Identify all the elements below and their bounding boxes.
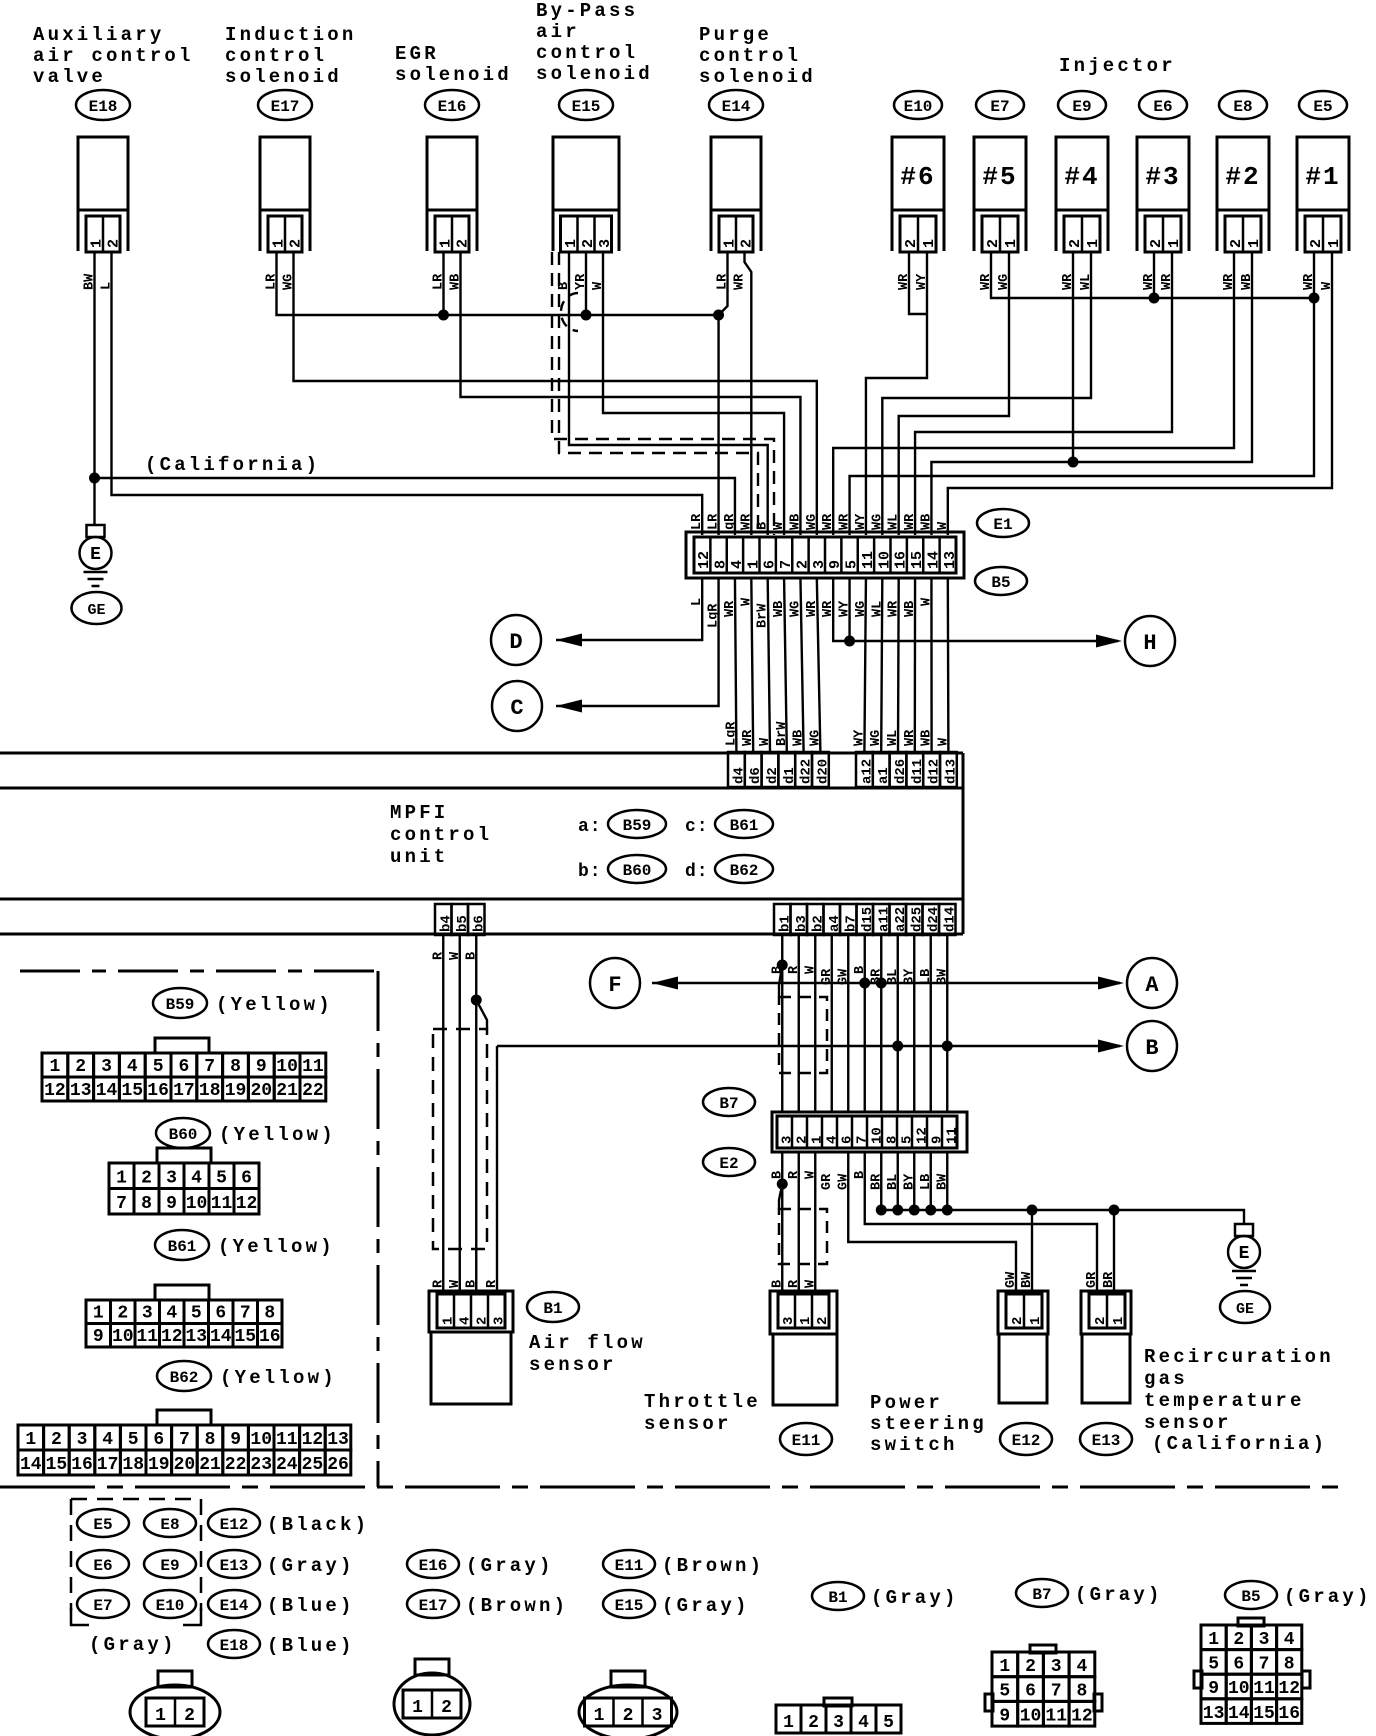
svg-text:(Gray): (Gray) <box>466 1555 554 1577</box>
svg-text:5: 5 <box>128 1430 139 1450</box>
svg-text:2: 2 <box>51 1430 62 1450</box>
svg-text:13: 13 <box>1203 1704 1225 1724</box>
svg-text:11: 11 <box>136 1327 158 1347</box>
svg-text:(Gray): (Gray) <box>662 1595 750 1617</box>
svg-text:1: 1 <box>783 1713 794 1733</box>
svg-text:11: 11 <box>302 1057 324 1077</box>
svg-text:W: W <box>758 737 773 746</box>
svg-text:2: 2 <box>623 1706 634 1726</box>
svg-text:B60: B60 <box>623 862 652 880</box>
svg-text:7: 7 <box>240 1304 251 1324</box>
svg-text:#1: #1 <box>1305 162 1340 192</box>
svg-text:valve: valve <box>33 66 106 88</box>
svg-text:18: 18 <box>199 1081 221 1101</box>
svg-text:(Gray): (Gray) <box>267 1555 355 1577</box>
svg-text:B62: B62 <box>170 1369 199 1387</box>
svg-text:B61: B61 <box>730 817 759 835</box>
svg-text:7: 7 <box>116 1194 127 1214</box>
svg-text:MPFI: MPFI <box>390 802 448 824</box>
svg-text:2: 2 <box>117 1304 128 1324</box>
svg-text:18: 18 <box>122 1455 144 1475</box>
svg-text:4: 4 <box>1284 1630 1295 1650</box>
svg-text:control: control <box>699 45 801 67</box>
svg-text:#3: #3 <box>1145 162 1180 192</box>
svg-text:E9: E9 <box>1072 98 1091 116</box>
svg-text:(Black): (Black) <box>267 1514 369 1536</box>
svg-text:8: 8 <box>264 1304 275 1324</box>
svg-text:B: B <box>1145 1036 1158 1061</box>
svg-text:Power: Power <box>870 1392 943 1414</box>
svg-text:19: 19 <box>225 1081 247 1101</box>
svg-text:5: 5 <box>191 1304 202 1324</box>
svg-text:16: 16 <box>259 1327 281 1347</box>
svg-text:1: 1 <box>798 1317 814 1325</box>
svg-text:E11: E11 <box>792 1432 821 1450</box>
svg-text:3: 3 <box>781 1317 797 1325</box>
svg-text:a:: a: <box>578 817 602 837</box>
svg-text:E: E <box>1239 1244 1250 1264</box>
svg-text:E14: E14 <box>722 98 751 116</box>
svg-text:(Yellow): (Yellow) <box>216 994 333 1016</box>
svg-text:12: 12 <box>302 1430 324 1450</box>
svg-text:2: 2 <box>75 1057 86 1077</box>
svg-text:2: 2 <box>1148 239 1165 248</box>
svg-text:F: F <box>608 973 621 998</box>
svg-text:19: 19 <box>148 1455 170 1475</box>
svg-text:1: 1 <box>999 1657 1010 1677</box>
svg-text:3: 3 <box>166 1169 177 1189</box>
svg-text:Throttle: Throttle <box>644 1391 761 1413</box>
svg-text:21: 21 <box>199 1455 221 1475</box>
svg-text:R: R <box>431 1279 446 1288</box>
svg-text:9: 9 <box>256 1057 267 1077</box>
svg-text:9: 9 <box>230 1430 241 1450</box>
svg-text:1: 1 <box>1028 1317 1044 1325</box>
svg-text:2: 2 <box>1308 239 1325 248</box>
svg-text:H: H <box>1143 631 1156 656</box>
svg-text:(California): (California) <box>145 454 320 476</box>
svg-text:B1: B1 <box>828 1589 847 1607</box>
svg-text:E6: E6 <box>93 1557 112 1575</box>
svg-text:GE: GE <box>87 602 105 619</box>
svg-text:E10: E10 <box>156 1597 185 1615</box>
svg-text:8: 8 <box>1076 1682 1087 1702</box>
svg-text:2: 2 <box>985 239 1002 248</box>
svg-text:control: control <box>390 824 492 846</box>
svg-text:3: 3 <box>1259 1630 1270 1650</box>
svg-text:By-Pass: By-Pass <box>536 0 638 22</box>
svg-text:12: 12 <box>44 1081 66 1101</box>
svg-text:1: 1 <box>1166 239 1183 248</box>
svg-text:#5: #5 <box>982 162 1017 192</box>
svg-text:1: 1 <box>594 1706 605 1726</box>
svg-text:6: 6 <box>153 1430 164 1450</box>
svg-text:WR: WR <box>903 729 918 746</box>
svg-text:#6: #6 <box>900 162 935 192</box>
svg-text:sensor: sensor <box>529 1354 617 1376</box>
svg-text:2: 2 <box>903 239 920 248</box>
svg-text:5: 5 <box>216 1169 227 1189</box>
svg-text:10: 10 <box>276 1057 298 1077</box>
svg-text:11: 11 <box>1253 1679 1275 1699</box>
svg-text:6: 6 <box>1233 1655 1244 1675</box>
svg-text:sensor: sensor <box>644 1413 732 1435</box>
svg-text:(Gray): (Gray) <box>1284 1586 1372 1608</box>
svg-text:22: 22 <box>302 1081 324 1101</box>
svg-text:13: 13 <box>327 1430 349 1450</box>
svg-text:2: 2 <box>288 239 305 248</box>
svg-text:E18: E18 <box>89 98 118 116</box>
svg-text:14: 14 <box>1228 1704 1250 1724</box>
svg-text:14: 14 <box>20 1455 42 1475</box>
svg-text:2: 2 <box>1010 1317 1026 1325</box>
svg-text:Injector: Injector <box>1059 55 1176 77</box>
svg-text:12: 12 <box>1278 1679 1300 1699</box>
svg-text:E15: E15 <box>572 98 601 116</box>
svg-text:B5: B5 <box>991 574 1010 592</box>
svg-text:W: W <box>803 1279 818 1288</box>
svg-text:4: 4 <box>858 1713 869 1733</box>
svg-text:control: control <box>225 45 327 67</box>
svg-text:7: 7 <box>1259 1655 1270 1675</box>
svg-text:E9: E9 <box>160 1557 179 1575</box>
svg-text:c:: c: <box>685 817 709 837</box>
svg-text:unit: unit <box>390 846 448 868</box>
svg-text:WY: WY <box>852 729 867 746</box>
svg-text:A: A <box>1145 973 1159 998</box>
svg-text:20: 20 <box>174 1455 196 1475</box>
svg-text:E14: E14 <box>220 1597 249 1615</box>
svg-text:(Gray): (Gray) <box>871 1587 959 1609</box>
svg-text:E16: E16 <box>419 1557 448 1575</box>
svg-text:temperature: temperature <box>1144 1390 1305 1412</box>
svg-text:switch: switch <box>870 1434 958 1456</box>
svg-text:5: 5 <box>883 1713 894 1733</box>
svg-text:solenoid: solenoid <box>699 66 816 88</box>
svg-text:15: 15 <box>121 1081 143 1101</box>
svg-text:15: 15 <box>46 1455 68 1475</box>
svg-text:16: 16 <box>71 1455 93 1475</box>
svg-text:2: 2 <box>106 239 123 248</box>
svg-text:LgR: LgR <box>724 721 739 746</box>
svg-text:2: 2 <box>455 239 472 248</box>
svg-text:8: 8 <box>1284 1655 1295 1675</box>
svg-text:#4: #4 <box>1064 162 1099 192</box>
svg-text:16: 16 <box>147 1081 169 1101</box>
svg-text:1: 1 <box>412 1698 423 1718</box>
svg-text:E: E <box>90 545 101 565</box>
svg-text:4: 4 <box>127 1057 138 1077</box>
svg-text:WR: WR <box>741 729 756 746</box>
svg-text:13: 13 <box>185 1327 207 1347</box>
svg-text:2: 2 <box>141 1169 152 1189</box>
svg-text:WB: WB <box>920 730 935 746</box>
svg-text:d14: d14 <box>942 907 958 932</box>
svg-text:2: 2 <box>1233 1630 1244 1650</box>
svg-text:Air flow: Air flow <box>529 1332 646 1354</box>
svg-text:9: 9 <box>999 1706 1010 1726</box>
svg-text:3: 3 <box>833 1713 844 1733</box>
svg-text:WL: WL <box>886 730 901 746</box>
svg-text:(Brown): (Brown) <box>662 1555 764 1577</box>
svg-text:WG: WG <box>808 730 823 746</box>
svg-text:W: W <box>448 1279 463 1288</box>
svg-text:B62: B62 <box>730 862 759 880</box>
svg-text:B5: B5 <box>1241 1588 1260 1606</box>
svg-text:BR: BR <box>1102 1271 1117 1288</box>
svg-text:6: 6 <box>241 1169 252 1189</box>
svg-text:E7: E7 <box>990 98 1009 116</box>
svg-text:E1: E1 <box>993 516 1012 534</box>
svg-text:1: 1 <box>1326 239 1343 248</box>
svg-text:E6: E6 <box>1153 98 1172 116</box>
svg-text:E12: E12 <box>220 1516 249 1534</box>
svg-text:15: 15 <box>1253 1704 1275 1724</box>
svg-text:5: 5 <box>1208 1655 1219 1675</box>
svg-text:WG: WG <box>869 730 884 746</box>
svg-text:6: 6 <box>178 1057 189 1077</box>
svg-text:E11: E11 <box>615 1557 644 1575</box>
svg-text:9: 9 <box>166 1194 177 1214</box>
svg-text:#2: #2 <box>1225 162 1260 192</box>
svg-text:EGR: EGR <box>395 43 439 65</box>
svg-text:2: 2 <box>1093 1317 1109 1325</box>
svg-text:E18: E18 <box>220 1637 249 1655</box>
svg-text:1: 1 <box>921 239 938 248</box>
svg-text:B: B <box>464 1280 479 1288</box>
svg-text:1: 1 <box>116 1169 127 1189</box>
svg-text:(Gray): (Gray) <box>89 1634 177 1656</box>
svg-text:9: 9 <box>93 1327 104 1347</box>
svg-text:11: 11 <box>1045 1706 1067 1726</box>
svg-text:2: 2 <box>815 1317 831 1325</box>
svg-text:steering: steering <box>870 1413 987 1435</box>
svg-text:d20: d20 <box>815 759 831 784</box>
svg-text:control: control <box>536 42 638 64</box>
svg-text:Induction: Induction <box>225 24 356 46</box>
svg-text:B60: B60 <box>169 1126 198 1144</box>
svg-text:C: C <box>510 696 523 721</box>
svg-text:6: 6 <box>1025 1682 1036 1702</box>
svg-text:2: 2 <box>739 239 756 248</box>
svg-text:20: 20 <box>250 1081 272 1101</box>
svg-text:3: 3 <box>101 1057 112 1077</box>
svg-text:5: 5 <box>153 1057 164 1077</box>
svg-text:14: 14 <box>96 1081 118 1101</box>
svg-text:12: 12 <box>161 1327 183 1347</box>
svg-text:21: 21 <box>276 1081 298 1101</box>
svg-text:B1: B1 <box>543 1300 562 1318</box>
svg-text:E2: E2 <box>719 1155 738 1173</box>
svg-text:7: 7 <box>204 1057 215 1077</box>
svg-text:6: 6 <box>215 1304 226 1324</box>
svg-text:22: 22 <box>225 1455 247 1475</box>
svg-text:b:: b: <box>578 862 602 882</box>
svg-text:3: 3 <box>1051 1657 1062 1677</box>
svg-text:1: 1 <box>1085 239 1102 248</box>
svg-text:10: 10 <box>112 1327 134 1347</box>
svg-text:4: 4 <box>1076 1657 1087 1677</box>
svg-text:B59: B59 <box>623 817 652 835</box>
svg-text:3: 3 <box>142 1304 153 1324</box>
svg-text:GR: GR <box>820 1173 835 1190</box>
svg-text:E8: E8 <box>160 1516 179 1534</box>
svg-text:E7: E7 <box>93 1597 112 1615</box>
svg-text:(Yellow): (Yellow) <box>218 1236 335 1258</box>
svg-text:B7: B7 <box>1032 1586 1051 1604</box>
svg-text:B61: B61 <box>168 1238 197 1256</box>
svg-text:11: 11 <box>211 1194 233 1214</box>
svg-text:WR: WR <box>733 273 748 290</box>
svg-text:13: 13 <box>70 1081 92 1101</box>
svg-text:4: 4 <box>166 1304 177 1324</box>
svg-text:2: 2 <box>1228 239 1245 248</box>
svg-text:GW: GW <box>1004 1271 1019 1288</box>
svg-text:BW: BW <box>1020 1271 1035 1288</box>
svg-text:Auxiliary: Auxiliary <box>33 24 164 46</box>
svg-text:24: 24 <box>276 1455 298 1475</box>
svg-text:3: 3 <box>652 1706 663 1726</box>
svg-text:1: 1 <box>25 1430 36 1450</box>
svg-text:E15: E15 <box>615 1597 644 1615</box>
svg-text:3: 3 <box>77 1430 88 1450</box>
svg-text:9: 9 <box>1208 1679 1219 1699</box>
svg-text:E5: E5 <box>93 1516 112 1534</box>
svg-text:R: R <box>787 1279 802 1288</box>
svg-text:gas: gas <box>1144 1368 1188 1390</box>
svg-text:13: 13 <box>942 551 959 569</box>
svg-text:7: 7 <box>1051 1682 1062 1702</box>
svg-text:12: 12 <box>236 1194 258 1214</box>
svg-text:WB: WB <box>792 730 807 746</box>
svg-text:(Yellow): (Yellow) <box>219 1124 336 1146</box>
svg-text:1: 1 <box>441 1317 457 1325</box>
svg-text:26: 26 <box>327 1455 349 1475</box>
svg-text:E8: E8 <box>1233 98 1252 116</box>
svg-text:10: 10 <box>186 1194 208 1214</box>
svg-text:1: 1 <box>1246 239 1263 248</box>
svg-text:17: 17 <box>173 1081 195 1101</box>
svg-text:d13: d13 <box>943 759 959 784</box>
svg-text:17: 17 <box>97 1455 119 1475</box>
svg-text:R: R <box>485 1279 500 1288</box>
svg-text:W: W <box>936 737 951 746</box>
svg-text:E17: E17 <box>419 1597 448 1615</box>
svg-text:15: 15 <box>234 1327 256 1347</box>
svg-text:E16: E16 <box>438 98 467 116</box>
svg-text:Recircuration: Recircuration <box>1144 1346 1334 1368</box>
svg-text:(Blue): (Blue) <box>267 1635 355 1657</box>
svg-text:E10: E10 <box>904 98 933 116</box>
svg-text:solenoid: solenoid <box>395 64 512 86</box>
svg-text:3: 3 <box>597 239 614 248</box>
svg-text:air control: air control <box>33 45 194 67</box>
svg-text:B59: B59 <box>166 996 195 1014</box>
svg-text:E5: E5 <box>1313 98 1332 116</box>
svg-text:7: 7 <box>179 1430 190 1450</box>
svg-text:2: 2 <box>808 1713 819 1733</box>
svg-text:(Yellow): (Yellow) <box>220 1367 337 1389</box>
svg-text:8: 8 <box>230 1057 241 1077</box>
svg-text:E17: E17 <box>271 98 300 116</box>
svg-text:E12: E12 <box>1012 1432 1041 1450</box>
svg-text:solenoid: solenoid <box>536 63 653 85</box>
svg-text:11: 11 <box>276 1430 298 1450</box>
svg-text:10: 10 <box>250 1430 272 1450</box>
svg-text:23: 23 <box>250 1455 272 1475</box>
svg-text:2: 2 <box>184 1706 195 1726</box>
svg-text:14: 14 <box>210 1327 232 1347</box>
svg-text:2: 2 <box>475 1317 491 1325</box>
svg-text:10: 10 <box>1228 1679 1250 1699</box>
svg-text:BrW: BrW <box>775 721 790 746</box>
svg-text:sensor: sensor <box>1144 1412 1232 1434</box>
svg-text:(Gray): (Gray) <box>1075 1584 1163 1606</box>
svg-text:25: 25 <box>302 1455 324 1475</box>
svg-text:(California): (California) <box>1152 1433 1327 1455</box>
svg-text:5: 5 <box>999 1682 1010 1702</box>
svg-text:air: air <box>536 21 580 43</box>
svg-text:11: 11 <box>945 1127 961 1144</box>
svg-text:B7: B7 <box>719 1095 738 1113</box>
svg-text:4: 4 <box>191 1169 202 1189</box>
svg-text:2: 2 <box>1025 1657 1036 1677</box>
svg-text:12: 12 <box>1071 1706 1093 1726</box>
svg-text:Purge: Purge <box>699 24 772 46</box>
svg-text:8: 8 <box>141 1194 152 1214</box>
svg-text:solenoid: solenoid <box>225 66 342 88</box>
svg-text:B: B <box>770 1280 785 1288</box>
svg-text:2: 2 <box>441 1698 452 1718</box>
svg-text:4: 4 <box>458 1317 474 1325</box>
svg-text:2: 2 <box>1067 239 1084 248</box>
svg-text:b6: b6 <box>471 915 487 932</box>
svg-text:1: 1 <box>93 1304 104 1324</box>
svg-text:D: D <box>509 630 522 655</box>
svg-text:1: 1 <box>49 1057 60 1077</box>
svg-text:GR: GR <box>1085 1271 1100 1288</box>
svg-text:E13: E13 <box>220 1557 249 1575</box>
svg-text:1: 1 <box>1208 1630 1219 1650</box>
svg-text:d:: d: <box>685 862 709 882</box>
svg-text:1: 1 <box>1003 239 1020 248</box>
svg-text:8: 8 <box>205 1430 216 1450</box>
svg-text:GE: GE <box>1236 1301 1254 1318</box>
svg-text:4: 4 <box>102 1430 113 1450</box>
svg-text:(Brown): (Brown) <box>466 1595 568 1617</box>
svg-text:1: 1 <box>155 1706 166 1726</box>
svg-text:(Blue): (Blue) <box>267 1595 355 1617</box>
svg-text:16: 16 <box>1278 1704 1300 1724</box>
svg-text:3: 3 <box>492 1317 508 1325</box>
svg-text:E13: E13 <box>1092 1432 1121 1450</box>
svg-text:10: 10 <box>1020 1706 1042 1726</box>
svg-text:1: 1 <box>1111 1317 1127 1325</box>
